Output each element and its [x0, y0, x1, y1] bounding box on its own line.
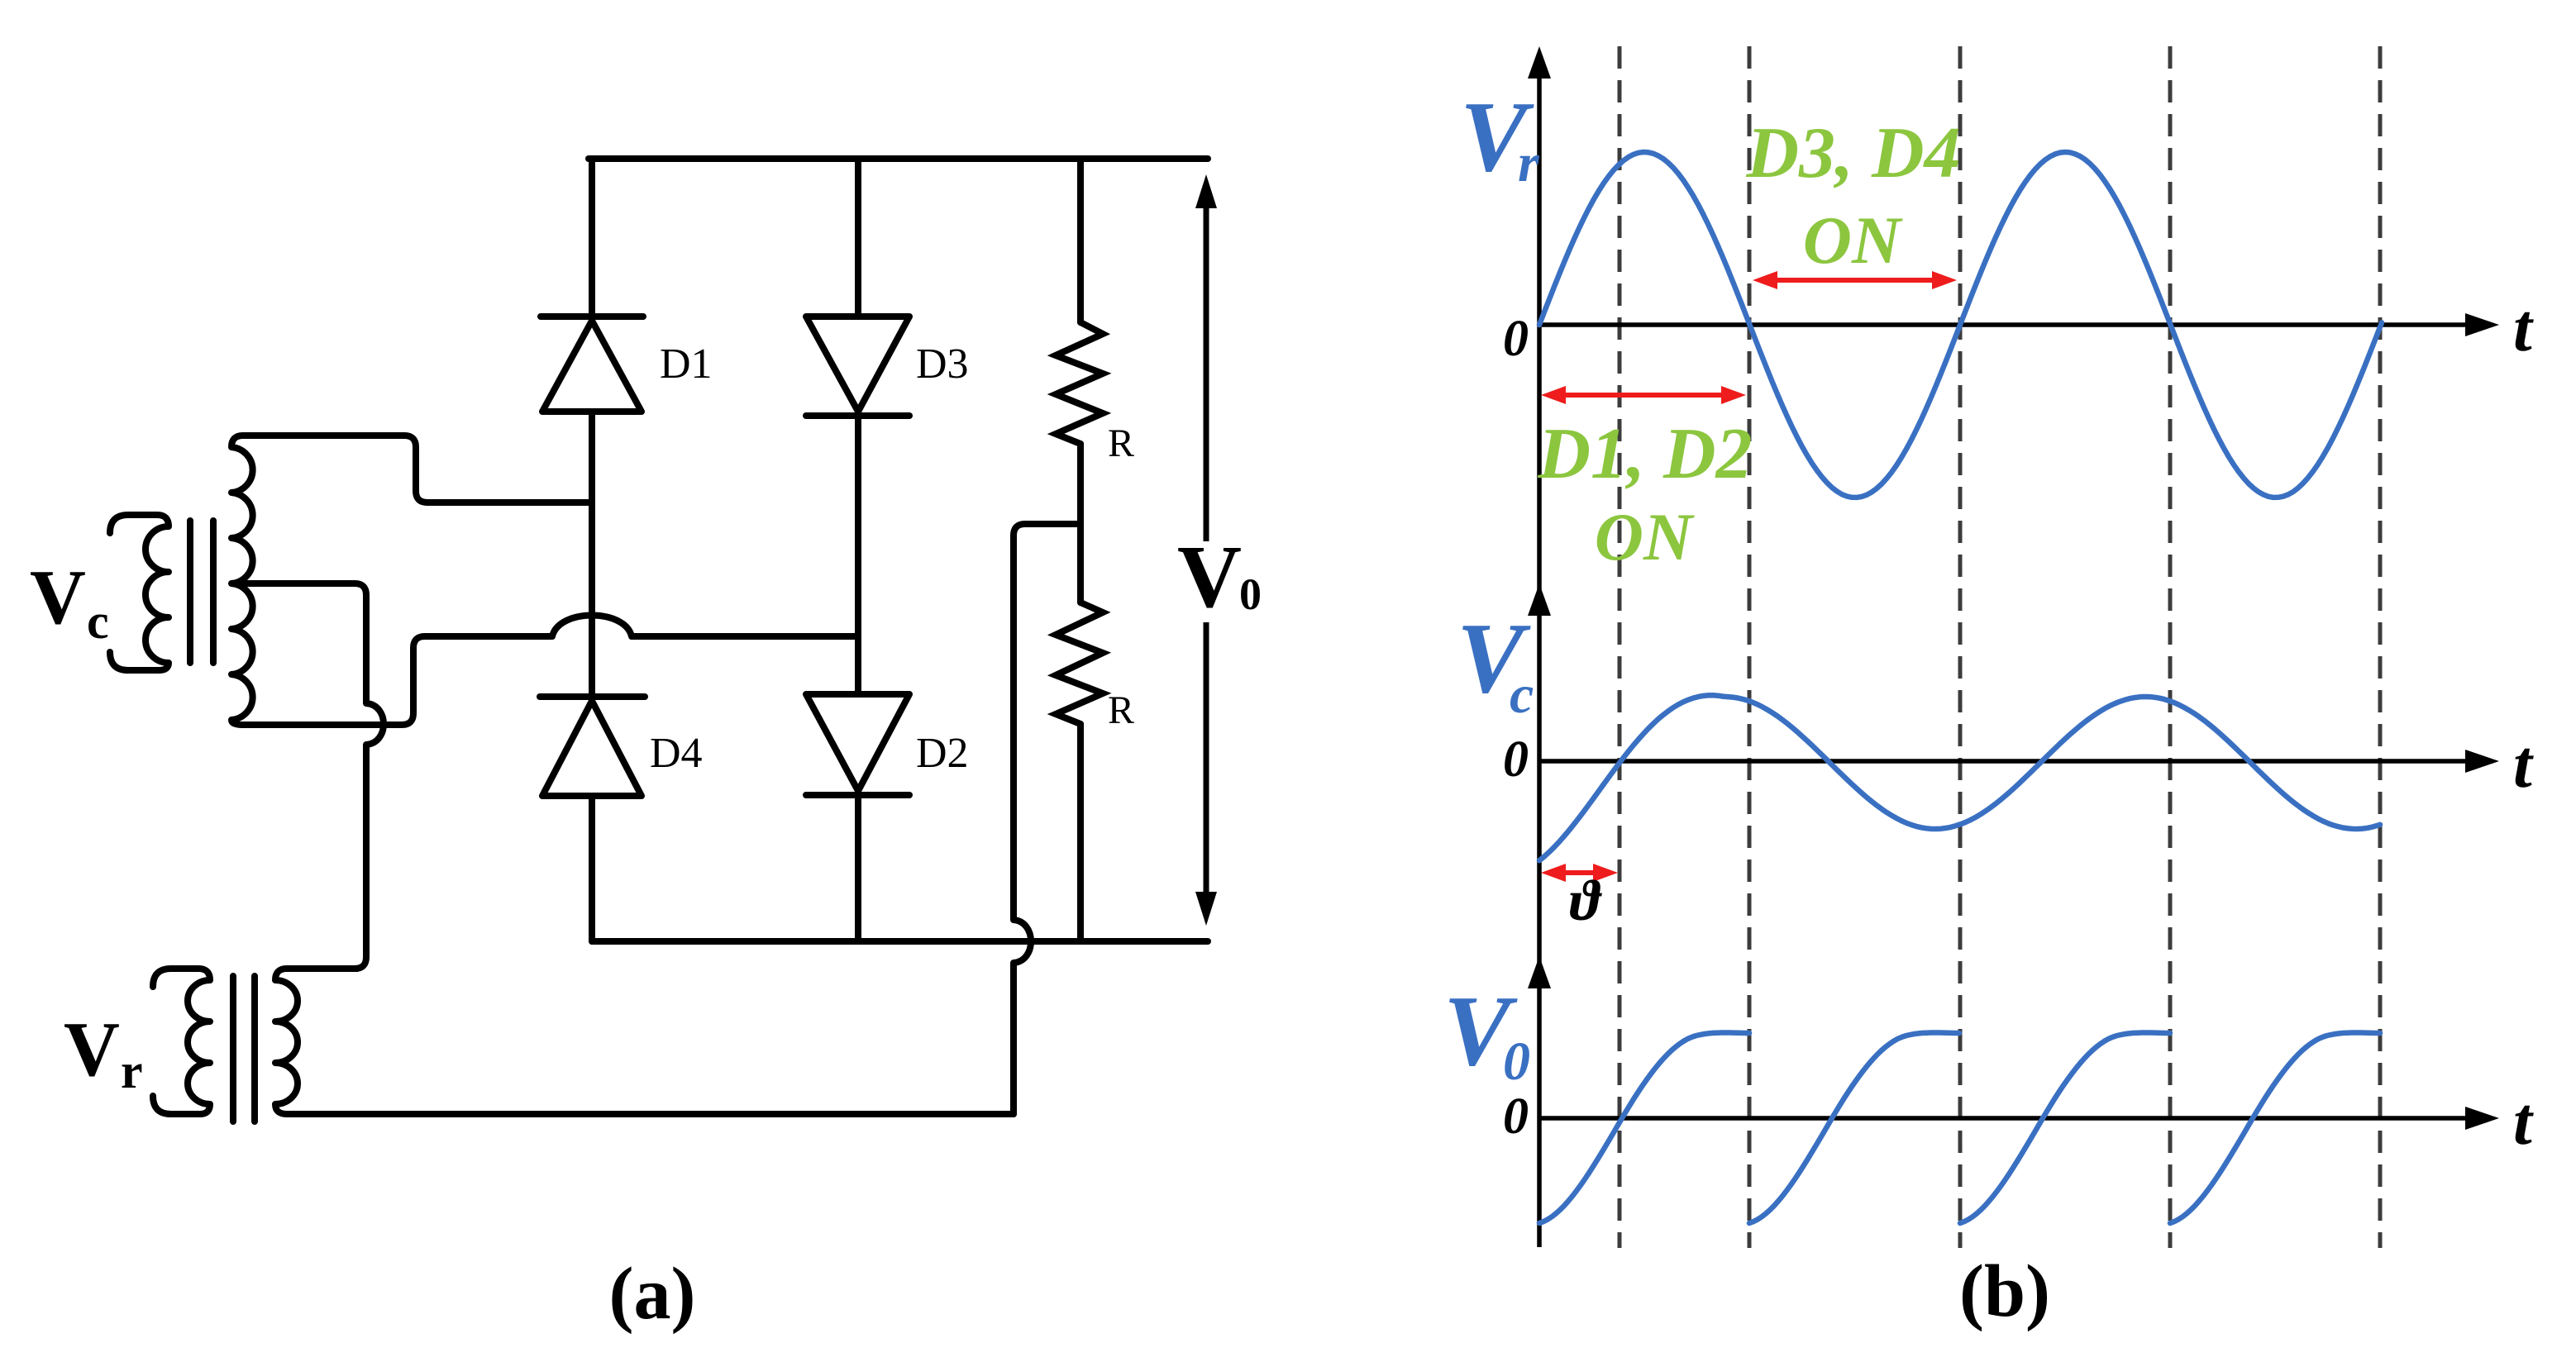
- svg-text:t: t: [2513, 726, 2534, 802]
- svg-text:0: 0: [1503, 1088, 1529, 1145]
- svg-text:D1: D1: [660, 340, 713, 388]
- svg-text:D1, D2: D1, D2: [1537, 414, 1752, 494]
- svg-text:(b): (b): [1959, 1250, 2050, 1332]
- svg-text:0: 0: [1239, 569, 1262, 619]
- svg-text:(a): (a): [609, 1253, 696, 1335]
- svg-text:ON: ON: [1595, 499, 1695, 574]
- svg-text:r: r: [1518, 133, 1540, 193]
- svg-text:D3, D4: D3, D4: [1745, 113, 1960, 193]
- svg-text:ϑ: ϑ: [1570, 869, 1603, 933]
- svg-text:c: c: [87, 594, 109, 649]
- svg-text:V: V: [1177, 528, 1242, 626]
- svg-text:R: R: [1108, 421, 1134, 465]
- svg-text:R: R: [1108, 688, 1134, 732]
- svg-text:0: 0: [1503, 311, 1529, 367]
- svg-text:D3: D3: [916, 340, 969, 388]
- svg-text:0: 0: [1503, 1031, 1530, 1092]
- svg-text:0: 0: [1503, 731, 1529, 788]
- svg-text:V: V: [30, 555, 86, 641]
- svg-text:ON: ON: [1803, 202, 1903, 278]
- svg-text:V: V: [64, 1007, 120, 1093]
- svg-text:D4: D4: [650, 730, 703, 777]
- svg-text:t: t: [2513, 290, 2534, 365]
- svg-text:t: t: [2513, 1083, 2534, 1159]
- svg-text:r: r: [121, 1044, 143, 1098]
- svg-text:c: c: [1510, 664, 1534, 725]
- svg-text:D2: D2: [916, 730, 969, 777]
